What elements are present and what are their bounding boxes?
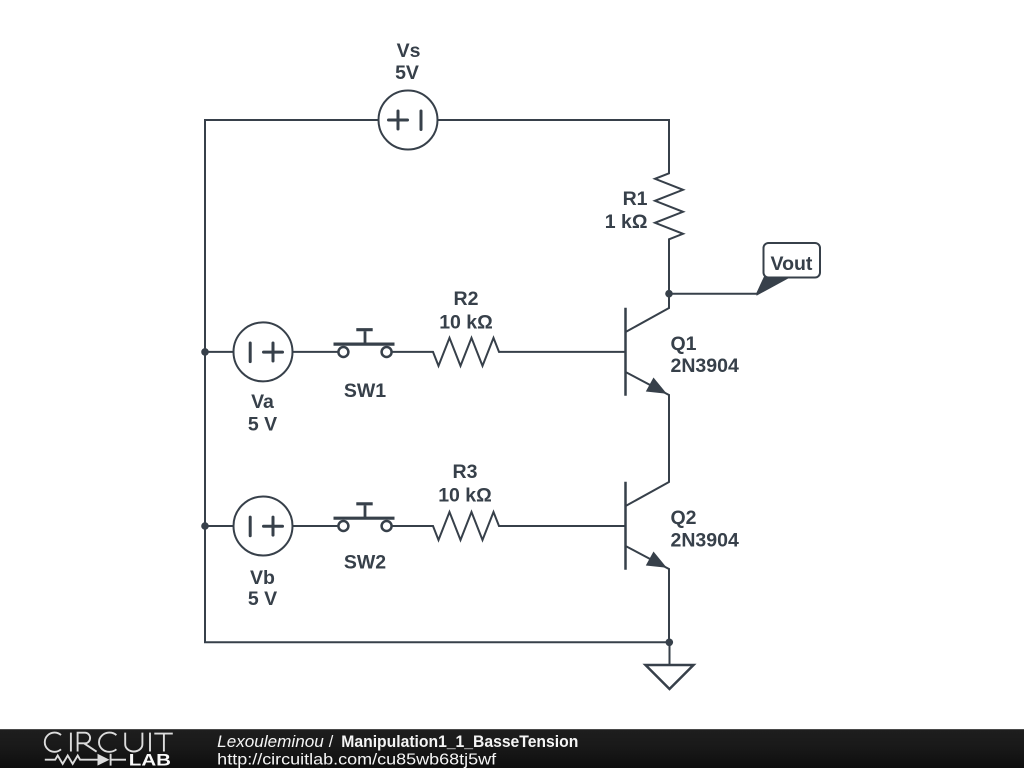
voltage source Vb — [234, 497, 293, 556]
node Vb junction — [201, 522, 209, 530]
wire rail to Vb — [205, 525, 234, 527]
wire SW1 to R2 — [393, 351, 433, 353]
wire Q1 emitter to Q2 collector — [668, 395, 670, 482]
voltage source Vs — [379, 91, 438, 150]
node Vout junction — [665, 290, 673, 298]
CircuitLab logo squiggle and diode — [45, 754, 126, 766]
svg-text:5 V: 5 V — [248, 414, 277, 436]
svg-text:Manipulation1_1_BasseTension: Manipulation1_1_BasseTension — [341, 733, 578, 751]
resistor R1 — [655, 173, 683, 239]
wire Va to SW1 — [293, 351, 338, 353]
wire Q1 collector stub — [668, 294, 670, 308]
svg-text:LAB: LAB — [129, 751, 171, 768]
svg-text:2N3904: 2N3904 — [671, 530, 739, 552]
transistor Q1 — [626, 308, 670, 396]
wire node to Vout flag — [669, 293, 757, 295]
svg-text:5V: 5V — [395, 62, 419, 84]
voltage source Va — [234, 322, 293, 381]
footer bar — [0, 729, 1024, 768]
svg-text:R1: R1 — [623, 188, 648, 210]
svg-text:SW2: SW2 — [344, 552, 386, 574]
wire R2 to Q1 base — [499, 351, 624, 353]
svg-text:http://circuitlab.com/cu85wb68: http://circuitlab.com/cu85wb68tj5wf — [217, 752, 497, 768]
ground — [646, 642, 694, 689]
wire top rail right segment — [438, 120, 670, 173]
wire top rail left segment — [205, 120, 379, 352]
svg-text:2N3904: 2N3904 — [671, 355, 739, 377]
svg-text:Vout: Vout — [771, 253, 813, 275]
svg-text:Vb: Vb — [250, 567, 275, 589]
wire R1 to Vout node — [668, 239, 670, 293]
flag Vout — [757, 243, 821, 296]
svg-text:R2: R2 — [454, 288, 479, 310]
switch SW2 — [334, 504, 395, 531]
CircuitLab logo CIRCUIT — [45, 733, 173, 752]
wire bottom rail — [205, 352, 669, 642]
svg-text:R3: R3 — [453, 461, 478, 483]
svg-text:/: / — [329, 733, 334, 751]
svg-text:SW1: SW1 — [344, 380, 386, 402]
wire Vb to SW2 — [293, 525, 338, 527]
svg-text:10 kΩ: 10 kΩ — [439, 312, 493, 334]
switch SW1 — [334, 330, 395, 357]
svg-text:Q2: Q2 — [671, 507, 697, 529]
svg-text:Q1: Q1 — [671, 333, 697, 355]
resistor R2 — [433, 338, 499, 366]
wire Q2 emitter to ground node — [668, 569, 670, 642]
resistor R3 — [433, 512, 499, 540]
svg-text:Va: Va — [251, 391, 274, 413]
node ground junction — [666, 639, 674, 647]
wire rail to Va — [205, 351, 234, 353]
svg-text:1 kΩ: 1 kΩ — [605, 211, 648, 233]
node Va junction — [201, 348, 209, 356]
wire SW2 to R3 — [393, 525, 433, 527]
wire R3 to Q2 base — [499, 525, 624, 527]
transistor Q2 — [626, 482, 670, 570]
svg-text:10 kΩ: 10 kΩ — [438, 485, 492, 507]
svg-text:Vs: Vs — [397, 40, 421, 62]
svg-text:5 V: 5 V — [248, 588, 277, 610]
svg-text:Lexouleminou: Lexouleminou — [217, 733, 324, 751]
